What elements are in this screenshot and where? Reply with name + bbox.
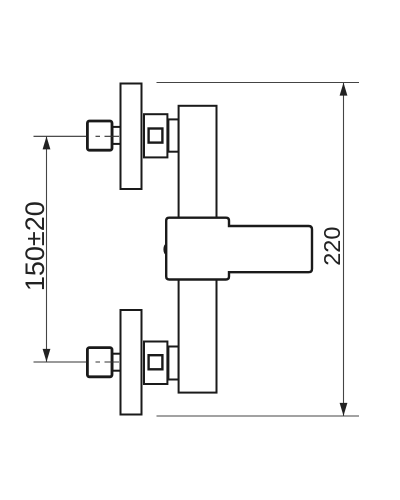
bottom connector block bbox=[144, 342, 167, 385]
cartridge side button bbox=[163, 244, 169, 255]
svg-text:150±20: 150±20 bbox=[20, 201, 50, 291]
right dimension line bbox=[343, 83, 345, 417]
handle block and lever bbox=[166, 218, 312, 280]
top bridge to body bbox=[168, 119, 178, 151]
top inlet nipple bbox=[113, 127, 121, 144]
top hex nut bbox=[87, 121, 112, 150]
left dimension top arrow bbox=[43, 136, 51, 149]
right bottom extension line bbox=[157, 415, 360, 417]
bottom hex nut bbox=[87, 348, 112, 377]
right dimension bottom arrow bbox=[340, 403, 348, 416]
left dimension bottom arrow bbox=[43, 349, 51, 362]
svg-text:220: 220 bbox=[319, 227, 345, 266]
right dimension top arrow bbox=[340, 83, 348, 96]
bottom wall flange bbox=[121, 310, 142, 415]
top wall flange bbox=[121, 84, 142, 190]
bottom bridge to body bbox=[168, 347, 178, 380]
top inlet centerline / extension line bbox=[34, 135, 120, 137]
left dimension line bbox=[46, 136, 48, 362]
faucet body bbox=[179, 106, 217, 393]
top connector block bbox=[144, 114, 167, 157]
bottom connector inner square bbox=[149, 355, 163, 369]
bottom inlet centerline / extension line bbox=[34, 361, 120, 363]
bottom inlet nipple bbox=[113, 354, 121, 371]
right top extension line bbox=[157, 82, 360, 84]
top connector inner square bbox=[149, 129, 163, 143]
